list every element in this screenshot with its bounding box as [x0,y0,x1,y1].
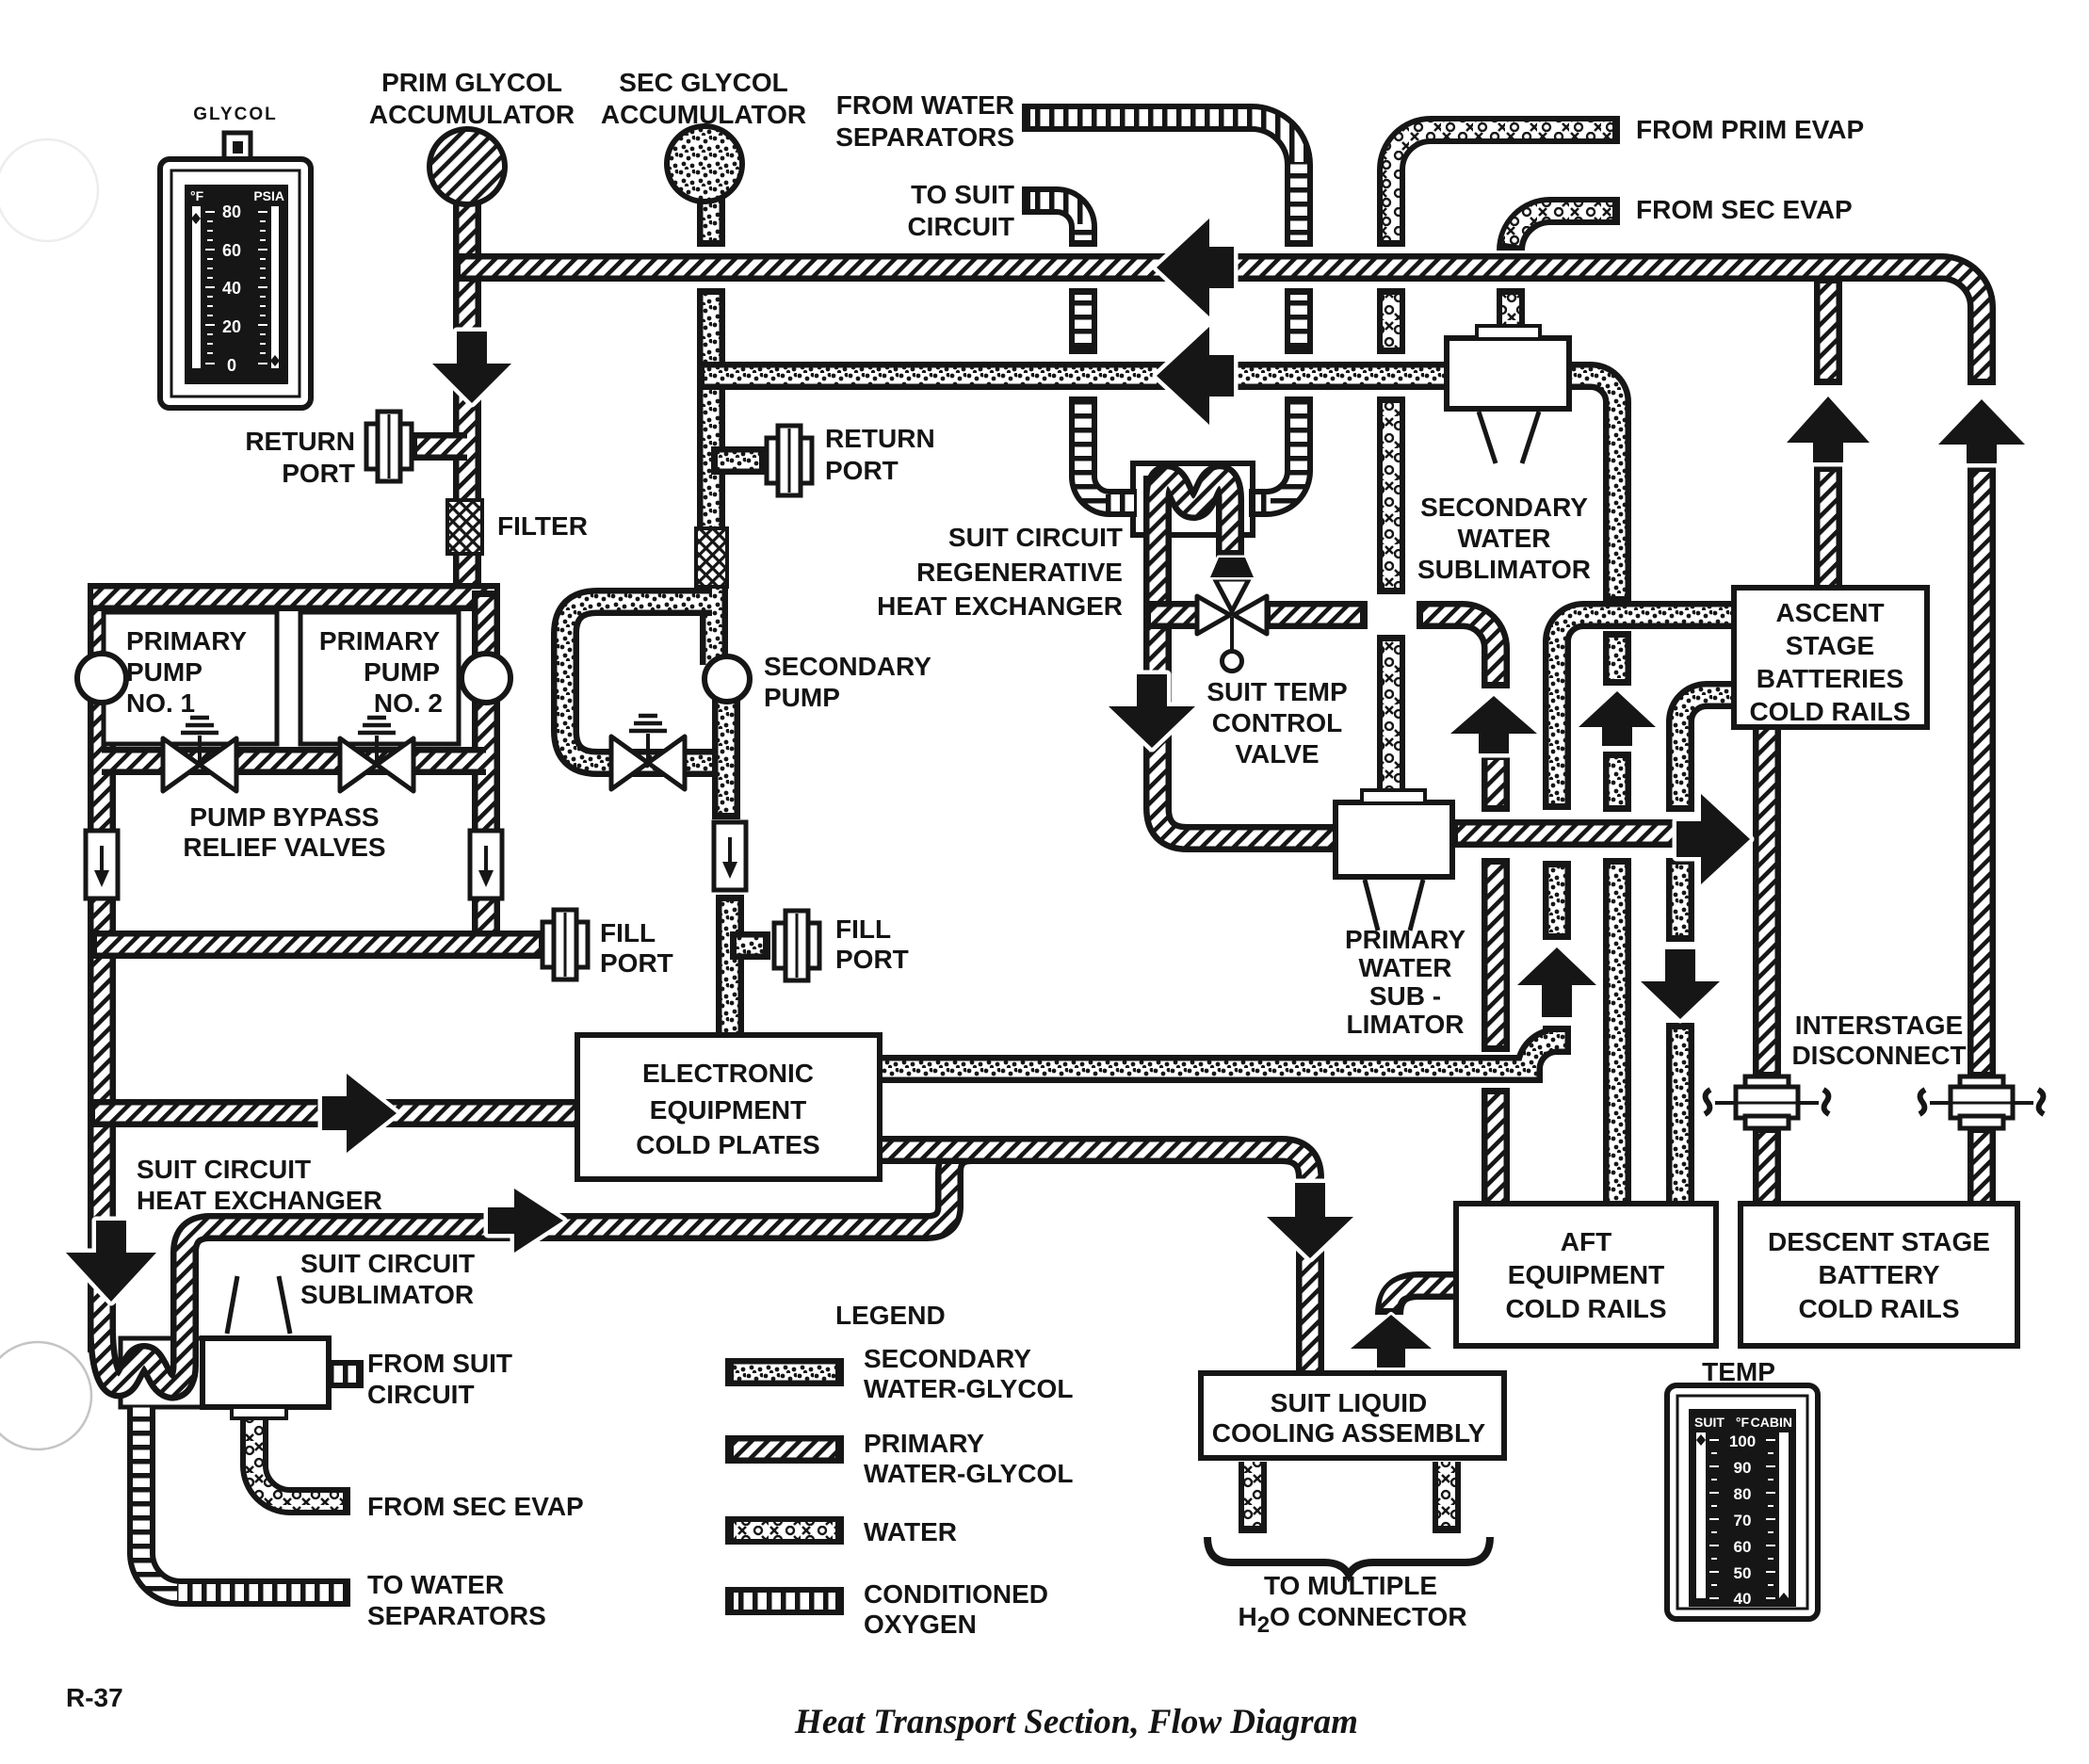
svg-text:PRIMARY: PRIMARY [126,626,247,655]
svg-text:CONTROL: CONTROL [1212,708,1342,737]
svg-text:PRIMARY: PRIMARY [864,1429,984,1458]
svg-text:WATER: WATER [864,1517,957,1546]
svg-text:PUMP: PUMP [364,657,440,687]
svg-text:REGENERATIVE: REGENERATIVE [916,558,1123,587]
flow arrow right on suit HX outlet line [488,1189,563,1253]
wire: V5 below interstage disconnect [1753,1126,1781,1210]
ARTIFACTS [0,139,98,1449]
wire: oxygen riser lower segment into regen HX [1083,396,1137,503]
flow arrow right into cold plates [322,1074,397,1153]
wire: pump loop left vertical lower continuing to suit circuit HX [88,894,116,1352]
svg-text:0: 0 [227,356,236,375]
wire: V6 below interstage disconnect [1968,1126,1996,1210]
svg-text:TO MULTIPLE: TO MULTIPLE [1264,1571,1437,1600]
wire: pump loop right vertical upper [472,591,500,837]
flow arrow down on regen HX outlet leg [1109,674,1195,748]
pump inlet circle no.1 [77,654,126,703]
fill port secondary [774,911,819,980]
wire: pump loop bottom edge to fill port [88,931,546,959]
wire: pump loop top edge [88,583,500,611]
check valve primary left [86,831,118,898]
flow arrow down on accumulator drop [432,332,511,403]
svg-text:°F: °F [190,188,204,203]
flow arrow down into suit circuit heat exchanger [66,1221,156,1302]
wire: V3 segment below up-arrow [1603,752,1631,812]
flow arrow up on V2 [1517,947,1596,1017]
svg-text:PORT: PORT [835,945,909,974]
svg-text:SEC GLYCOL: SEC GLYCOL [619,68,787,97]
bypass relief valve 1 [163,718,236,791]
wire: suit liquid cooling water stub left [1239,1462,1267,1533]
svg-text:VALVE: VALVE [1235,739,1319,769]
svg-text:COLD RAILS: COLD RAILS [1505,1294,1666,1323]
PIPES-UNDER [121,118,1982,1407]
svg-text:WATER-GLYCOL: WATER-GLYCOL [864,1374,1073,1403]
suit temp control valve [1197,579,1267,672]
legend sample conditioned oxygen [725,1587,844,1615]
descent stage battery cold rails box [1741,1204,2017,1346]
pump inlet circle no.2 [462,654,510,703]
wire: secondary drop pipe between mains and filter [697,288,725,533]
wire: suit liquid cooling assembly return stub below up-arrow [1375,1359,1403,1378]
flow arrow left on primary main [1157,218,1234,316]
legend sample primary water-glycol [725,1435,844,1464]
svg-text:CIRCUIT: CIRCUIT [367,1380,475,1409]
svg-text:PUMP: PUMP [764,683,840,712]
svg-text:PSIA: PSIA [253,188,284,203]
wire: secondary V4 from ascent box with bend [1680,695,1740,812]
wire: regen HX left leg with bend into primary sublimator [1158,476,1341,838]
svg-text:OXYGEN: OXYGEN [864,1610,977,1639]
wire: regen HX wave coil [1158,477,1230,527]
svg-text:PORT: PORT [282,459,355,488]
svg-text:SUBLIMATOR: SUBLIMATOR [1417,555,1591,584]
wire: primary feed into electronic equipment cold plates [88,1099,581,1127]
primary sublimator funnel [1365,880,1423,931]
check valve secondary [714,822,746,890]
wire: secondary supply from pump down to check valve [712,659,740,819]
svg-text:PUMP: PUMP [126,657,202,687]
wire: suit circuit HX wave, riser and line to suit liquid cooling assembly [102,1150,1310,1386]
wire: pump loop left vertical upper [88,591,116,837]
wire: secondary supply into cold plates [716,895,744,1040]
prim glycol accumulator [429,129,505,204]
wire: secondary glycol accumulator drop pipe (upper) [697,188,725,247]
svg-text:SEPARATORS: SEPARATORS [835,122,1014,152]
wire: secondary water-glycol main line to secondary sublimator [698,362,1452,390]
svg-text:FILL: FILL [600,918,656,947]
svg-text:TO WATER: TO WATER [367,1570,504,1599]
svg-text:SUIT LIQUID: SUIT LIQUID [1271,1388,1427,1417]
svg-text:TEMP: TEMP [1702,1357,1775,1386]
flow arrow right into V5 [1676,794,1750,884]
svg-text:CABIN: CABIN [1751,1415,1792,1430]
wire: oxygen downcomer lower segment into regen HX [1249,396,1299,503]
wire: suit sublimator water drain with bend [254,1413,350,1501]
svg-text:NO. 2: NO. 2 [374,688,443,718]
wire: secondary sublimator outlet bend into V3 [1563,376,1617,603]
svg-text:SECONDARY: SECONDARY [1420,493,1588,522]
wire: secondary return port stub [711,446,767,475]
svg-text:EQUIPMENT: EQUIPMENT [650,1095,806,1125]
svg-text:50: 50 [1734,1564,1752,1582]
wire: V1 segment into aft equipment cold rails [1482,1088,1510,1210]
svg-text:SUIT TEMP: SUIT TEMP [1206,677,1347,706]
secondary sublimator cap [1477,326,1540,339]
wire: V3 stub above up-arrow [1603,631,1631,686]
svg-text:60: 60 [1734,1538,1752,1556]
svg-text:SUIT: SUIT [1694,1415,1725,1430]
wire: secondary V2 stub below up-arrow [1543,861,1571,940]
svg-text:DISCONNECT: DISCONNECT [1791,1041,1966,1070]
svg-text:GLYCOL: GLYCOL [193,105,277,124]
svg-text:SEPARATORS: SEPARATORS [367,1601,546,1630]
svg-text:BATTERIES: BATTERIES [1757,664,1904,693]
wire: water downcomer segment 4 into primary sublimator cap [1377,635,1405,796]
svg-text:HEAT EXCHANGER: HEAT EXCHANGER [137,1186,382,1215]
svg-text:PRIMARY: PRIMARY [319,626,440,655]
svg-text:COLD PLATES: COLD PLATES [636,1130,819,1159]
wire: hatched descent-right riser V6 below arrow [1968,465,1996,1078]
svg-text:PRIM GLYCOL: PRIM GLYCOL [381,68,562,97]
flow arrow up on V3 [1579,691,1656,746]
svg-text:COLD RAILS: COLD RAILS [1749,697,1910,726]
wire: suit temp valve outlet to V1 bend [1417,615,1496,688]
svg-text:NO. 1: NO. 1 [126,688,195,718]
wire: V4 mid segment above down-arrow [1666,858,1694,942]
wire: water downcomer segment 2 [1377,288,1405,354]
svg-text:PORT: PORT [600,948,673,978]
svg-text:80: 80 [222,202,241,221]
wire: conditioned oxygen stub from suit circuit [329,1360,364,1388]
wire: hatched riser V7 ascent batteries to main (upper) [1814,275,1842,385]
wire: oxygen riser mid segment [1069,288,1097,354]
fill port primary [542,910,588,979]
wire: return bend into aft equipment cold rails [1389,1286,1462,1315]
glycol quantity gauge [160,133,311,408]
wire: regen HX right leg down to suit temp valve [1216,513,1244,558]
svg-text:SUBLIMATOR: SUBLIMATOR [300,1280,474,1309]
filter primary [447,500,482,554]
svg-text:SUIT CIRCUIT: SUIT CIRCUIT [137,1155,311,1184]
wire: primary glycol accumulator drop pipe [453,188,481,603]
svg-text:RELIEF VALVES: RELIEF VALVES [183,833,385,862]
svg-text:ASCENT: ASCENT [1775,598,1884,627]
svg-text:SECONDARY: SECONDARY [764,652,931,681]
aft equipment cold rails box [1456,1204,1716,1346]
flow arrowhead into suit temp control valve [1210,558,1254,577]
svg-text:ACCUMULATOR: ACCUMULATOR [601,100,806,129]
flow arrow left on secondary main [1157,327,1234,425]
electronic equipment cold plates box [577,1035,880,1179]
suit liquid cooling assembly box [1201,1373,1504,1458]
svg-text:LEGEND: LEGEND [835,1301,946,1330]
svg-text:CONDITIONED: CONDITIONED [864,1579,1048,1609]
wire: secondary V2 upper segment and bend to ascent box [1557,615,1740,810]
svg-text:SUIT CIRCUIT: SUIT CIRCUIT [948,523,1123,552]
wire: conditioned oxygen riser to suit circuit (upper stub) [1022,201,1083,247]
interstage disconnect 2 [1919,1076,2044,1128]
svg-text:WATER: WATER [1358,953,1451,982]
flow arrow up on V1 [1450,696,1537,753]
svg-text:FROM PRIM EVAP: FROM PRIM EVAP [1636,115,1864,144]
flow arrow up on V7 riser [1787,396,1870,462]
wire: primary sublimator outlet line toward V5 [1452,819,1695,848]
wire: V1 segment below up-arrow [1482,753,1510,812]
wire: pump bypass relief valve line [102,747,486,775]
svg-text:°F: °F [1736,1415,1750,1430]
svg-text:80: 80 [1734,1485,1752,1503]
svg-text:FILL: FILL [835,914,891,944]
check valve primary right [470,831,502,898]
wire: V1 segment between primary and secondary crossings [1482,858,1510,1052]
primary water sublimator box [1336,802,1452,877]
svg-text:RETURN: RETURN [825,424,935,453]
svg-text:90: 90 [1734,1459,1752,1477]
svg-text:FROM SEC EVAP: FROM SEC EVAP [1636,195,1853,224]
secondary water sublimator box [1447,338,1569,409]
svg-text:RETURN: RETURN [245,427,355,456]
return port secondary [767,426,812,495]
svg-text:60: 60 [222,241,241,260]
wire: secondary outlet of cold plates rising into V2 [874,1026,1557,1069]
svg-text:COLD RAILS: COLD RAILS [1798,1294,1959,1323]
wire: pump loop right vertical lower [472,894,500,958]
suit circuit sublimator box [202,1338,329,1407]
svg-text:FROM SUIT: FROM SUIT [367,1349,512,1378]
wire: secondary drop pipe below filter into pump loop [700,582,728,665]
svg-text:Heat Transport Section, Flow D: Heat Transport Section, Flow Diagram [794,1703,1358,1741]
svg-text:WATER-GLYCOL: WATER-GLYCOL [864,1459,1073,1488]
ascent stage batteries cold rails box [1734,588,1927,727]
svg-text:100: 100 [1729,1432,1756,1450]
wire: primary return port stub [412,432,467,461]
legend sample water [725,1516,844,1545]
suit sublimator funnel up [227,1276,290,1334]
svg-text:FROM WATER: FROM WATER [836,90,1014,120]
wire: suit temp valve right outlet piece [1263,601,1368,629]
ARROWS [66,218,2025,1368]
secondary sublimator funnel [1479,412,1539,463]
flow arrow down into suit liquid cooling assembly [1267,1183,1353,1258]
wire: suit temp valve left stub to regen leg [1144,601,1201,629]
svg-text:STAGE: STAGE [1786,631,1874,660]
wire: V4 lower segment into aft box [1666,1023,1694,1210]
wire: sec evap water stub into secondary sublimator cap [1497,288,1525,332]
brace to multiple H2O connector [1207,1537,1490,1575]
svg-text:CIRCUIT: CIRCUIT [907,212,1014,241]
svg-text:FROM SEC EVAP: FROM SEC EVAP [367,1492,584,1521]
wire: oxygen downcomer mid segment [1285,288,1313,354]
svg-text:AFT: AFT [1561,1227,1611,1256]
secondary loop relief valve [611,716,685,789]
flow arrow down on V4 [1641,949,1720,1019]
flow arrow up on V6 riser [1938,399,2025,463]
primary pump no.2 box [300,612,459,744]
svg-text:PUMP BYPASS: PUMP BYPASS [189,802,379,832]
wire: suit liquid cooling water stub right [1433,1462,1461,1533]
wire: hatched riser V7 (lower into ascent box) [1814,465,1842,593]
svg-text:ACCUMULATOR: ACCUMULATOR [369,100,575,129]
sec glycol accumulator [667,126,742,202]
suit sublimator cap below [232,1407,286,1418]
svg-text:40: 40 [222,279,241,298]
svg-text:FILTER: FILTER [497,511,588,541]
flow arrow up out of suit liquid cooling assembly [1351,1315,1432,1368]
primary pump no.1 box [104,612,277,744]
svg-text:PORT: PORT [825,456,899,485]
svg-text:PRIMARY: PRIMARY [1345,925,1466,954]
temp gauge [1667,1385,1818,1619]
secondary pump circle [704,656,750,702]
svg-text:70: 70 [1734,1512,1752,1529]
svg-text:INTERSTAGE: INTERSTAGE [1795,1011,1963,1040]
suit circuit heat exchanger (box) [121,1338,202,1407]
interstage disconnect 1 [1705,1076,1829,1128]
svg-text:SECONDARY: SECONDARY [864,1344,1031,1373]
PIPES-OVER [88,267,1982,1593]
svg-text:COOLING ASSEMBLY: COOLING ASSEMBLY [1212,1418,1486,1448]
filter secondary [696,528,727,587]
suit circuit regenerative heat exchanger (box) [1133,463,1253,535]
svg-text:R-37: R-37 [66,1683,123,1712]
primary sublimator cap [1362,790,1425,803]
wire: water line from prim evap with bend [1391,130,1620,247]
svg-text:20: 20 [222,317,241,336]
svg-text:LIMATOR: LIMATOR [1347,1010,1465,1039]
bypass relief valve 2 [340,718,413,791]
wire: water downcomer segment 3 [1377,396,1405,594]
svg-text:40: 40 [1734,1590,1752,1608]
svg-text:SUB -: SUB - [1369,981,1441,1011]
wire: hatched riser V5 ascent box to descent box [1753,721,1781,1078]
svg-text:ELECTRONIC: ELECTRONIC [642,1059,814,1088]
legend sample secondary water-glycol [725,1358,844,1386]
svg-text:EQUIPMENT: EQUIPMENT [1508,1260,1664,1289]
svg-text:BATTERY: BATTERY [1818,1260,1939,1289]
svg-text:SUIT CIRCUIT: SUIT CIRCUIT [300,1249,475,1278]
svg-text:WATER: WATER [1457,524,1550,553]
wire: V3 lower segment into aft box [1603,858,1631,1210]
svg-text:DESCENT STAGE: DESCENT STAGE [1768,1227,1990,1256]
return port primary [366,412,412,481]
wire: secondary pump recirculation loop [565,602,740,763]
svg-text:TO SUIT: TO SUIT [911,180,1014,209]
wire: cold plates primary outlet stub to jog [874,1136,980,1164]
wire: primary water-glycol main supply line (top) with right bend into V6 [453,267,1982,385]
wire: secondary fill port stub [730,931,770,960]
wire: oxygen drain of suit HX to water separators [141,1405,350,1593]
wire: water line from sec evap with bend [1511,211,1620,251]
svg-text:HEAT EXCHANGER: HEAT EXCHANGER [877,591,1123,621]
wire: oxygen line from water separators (top) [1022,118,1299,247]
